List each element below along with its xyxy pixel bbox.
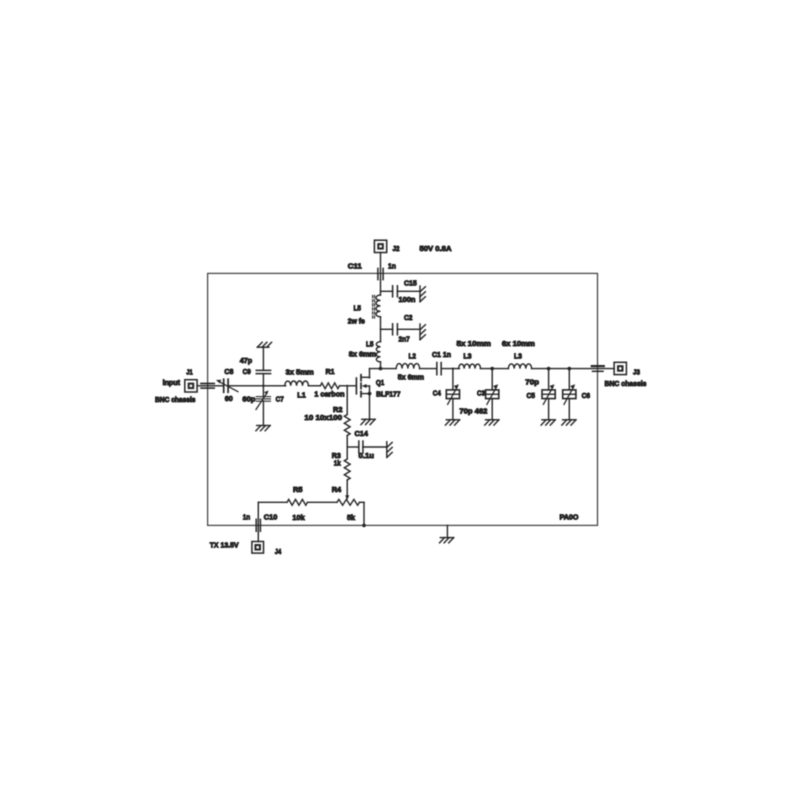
trimmer C4 branch wire xyxy=(452,369,454,390)
svg-text:C1 1n: C1 1n xyxy=(432,350,451,359)
trimmer C6 branch wire xyxy=(568,369,570,390)
wire C8 to node A xyxy=(228,385,286,387)
svg-text:BLF177: BLF177 xyxy=(376,389,400,398)
trimmer capacitor C3 xyxy=(486,390,499,399)
capacitor C14 wire xyxy=(347,446,359,448)
capacitor C15 branch wire xyxy=(381,290,393,292)
trimmer C5 branch wire xyxy=(548,369,550,390)
inductor L5 (8x 6mm) xyxy=(376,342,380,362)
ground below C6 xyxy=(563,419,576,421)
svg-text:C5: C5 xyxy=(527,391,536,400)
wire R2 to node B xyxy=(346,436,348,460)
svg-text:J4: J4 xyxy=(275,547,282,556)
inductor L3 (5x 10mm) xyxy=(459,364,481,369)
svg-text:L5: L5 xyxy=(354,303,362,312)
wire C1 to node C xyxy=(441,368,459,370)
trimmer capacitor C6 xyxy=(563,390,576,399)
svg-text:2n7: 2n7 xyxy=(399,335,410,344)
svg-text:5x 6mm: 5x 6mm xyxy=(398,372,425,381)
svg-text:C7: C7 xyxy=(276,394,284,403)
potentiometer R4 xyxy=(337,499,360,505)
ground below C5 xyxy=(542,419,555,421)
wire L5b to drain rail xyxy=(380,362,382,369)
svg-text:47p: 47p xyxy=(240,356,253,365)
svg-text:60: 60 xyxy=(225,394,233,403)
ground above C9 xyxy=(257,346,269,348)
svg-text:8x 6mm: 8x 6mm xyxy=(349,350,377,359)
junction R4/border xyxy=(362,524,366,528)
wire C7 to ground xyxy=(262,401,264,426)
svg-text:C15: C15 xyxy=(404,278,417,287)
capacitor C2 branch wire xyxy=(381,328,393,330)
transistor Q1 drain tap xyxy=(361,376,370,378)
svg-text:10k: 10k xyxy=(292,513,305,522)
ground below C3 xyxy=(486,419,499,421)
svg-text:J1: J1 xyxy=(186,367,193,376)
svg-text:100n: 100n xyxy=(399,295,416,304)
feedthrough capacitor C11 xyxy=(377,268,379,279)
wire C15 to ground xyxy=(397,290,420,292)
enclosure box (screened chassis) xyxy=(208,273,598,525)
trimmer capacitor C5 xyxy=(542,390,555,399)
junction L5/drain rail xyxy=(379,367,383,371)
svg-text:50V 0.8A: 50V 0.8A xyxy=(420,244,453,253)
svg-text:L3: L3 xyxy=(514,351,522,360)
svg-text:1n: 1n xyxy=(388,261,396,270)
ground on bottom border xyxy=(446,525,448,537)
svg-text:J3: J3 xyxy=(633,368,640,377)
wire C9 to ground xyxy=(262,347,264,370)
svg-text:0.1u: 0.1u xyxy=(359,451,375,460)
transistor Q1 channel xyxy=(360,375,362,381)
svg-text:10 10x100: 10 10x100 xyxy=(304,413,342,422)
resistor R5 xyxy=(287,499,307,505)
junction node F xyxy=(568,367,572,371)
svg-text:L1: L1 xyxy=(297,390,306,399)
svg-text:5k: 5k xyxy=(347,513,356,522)
connector J2 xyxy=(374,240,386,252)
svg-text:R5: R5 xyxy=(293,485,303,494)
svg-text:3x 5mm: 3x 5mm xyxy=(286,368,315,377)
feedthrough capacitor at input border xyxy=(201,383,214,385)
junction node C xyxy=(452,368,454,370)
svg-text:5x 10mm: 5x 10mm xyxy=(457,339,492,348)
wire C11 to L5 xyxy=(380,280,382,295)
wire J1 to C8 xyxy=(197,385,224,387)
wire C2 to ground xyxy=(397,328,420,330)
inductor L1 xyxy=(285,381,309,386)
svg-text:Q1: Q1 xyxy=(376,378,384,387)
feedthrough capacitor at output border xyxy=(592,365,604,367)
svg-text:J2: J2 xyxy=(393,244,400,253)
feedthrough capacitor C10 xyxy=(255,519,257,531)
svg-text:L5: L5 xyxy=(366,339,374,348)
ground below C4 xyxy=(446,419,459,421)
transistor Q1 body arrow xyxy=(365,385,370,387)
svg-text:1 carbon: 1 carbon xyxy=(314,390,345,399)
svg-text:TX 13.5V: TX 13.5V xyxy=(210,541,239,550)
wire C5 to ground xyxy=(548,399,550,420)
capacitor C1 xyxy=(436,363,438,375)
svg-text:input: input xyxy=(163,378,181,387)
svg-text:R1: R1 xyxy=(326,367,335,376)
svg-text:BNC chassis: BNC chassis xyxy=(155,395,196,404)
svg-text:1k: 1k xyxy=(334,458,342,467)
wire L3b to J3 xyxy=(532,368,615,370)
junction source/body xyxy=(368,392,372,396)
transistor Q1 gate bar xyxy=(355,378,357,394)
ferrite core marks xyxy=(372,296,374,319)
wire L5 to L5b xyxy=(380,317,382,342)
resistor R2 wire from gate xyxy=(346,386,348,415)
wire R5 left corner to J4 xyxy=(258,501,287,503)
ground below C7 xyxy=(257,425,270,427)
wire Q1 source to ground xyxy=(369,394,371,420)
drain rail wire xyxy=(370,368,396,370)
svg-text:R4: R4 xyxy=(332,485,342,494)
svg-text:L2: L2 xyxy=(409,351,417,360)
capacitor C9 branch wire xyxy=(262,374,264,386)
wire C14 to ground xyxy=(363,446,387,448)
svg-text:BNC chassis: BNC chassis xyxy=(605,379,647,388)
resistor R1 xyxy=(320,383,339,389)
trimmer capacitor C7 branch wire xyxy=(262,386,264,397)
svg-text:60p: 60p xyxy=(242,395,255,404)
capacitor C2 xyxy=(392,324,394,335)
svg-text:C10: C10 xyxy=(264,512,278,521)
svg-text:PA0O: PA0O xyxy=(560,513,579,522)
inductor L3 (6x 10mm) xyxy=(508,364,531,369)
wire C3 to ground xyxy=(491,399,493,420)
wire J2 to C11 xyxy=(380,253,382,280)
junction node E xyxy=(547,367,551,371)
connector J1 xyxy=(185,380,197,392)
transistor Q1 source tap xyxy=(361,393,371,395)
resistor R3 xyxy=(344,459,350,480)
ground right of C14 xyxy=(386,442,388,458)
svg-text:70p 462: 70p 462 xyxy=(459,406,487,415)
svg-text:70p: 70p xyxy=(525,377,539,386)
junction gate/R2 node xyxy=(346,385,348,387)
inductor L5 (2w fe) xyxy=(376,295,381,317)
junction node D xyxy=(490,367,494,371)
wire C6 to ground xyxy=(568,399,570,420)
capacitor C9 xyxy=(256,369,270,371)
svg-text:C11: C11 xyxy=(348,261,362,270)
resistor R2 xyxy=(344,415,350,436)
connector J3 xyxy=(614,362,626,374)
svg-text:C2: C2 xyxy=(404,313,413,322)
wire R5 to R4 xyxy=(308,501,338,503)
svg-text:C9: C9 xyxy=(243,367,251,376)
svg-text:6x 10mm: 6x 10mm xyxy=(502,339,535,348)
ground right of C2 xyxy=(419,324,421,340)
wire L1 to R1 xyxy=(308,385,320,387)
inductor L2 xyxy=(396,364,419,369)
svg-text:C4: C4 xyxy=(433,389,442,398)
wire R1 to gate of Q1 xyxy=(340,385,357,387)
ground at Q1 source xyxy=(362,418,375,420)
wire L3a to L3b xyxy=(481,368,509,370)
trimmer C3 branch wire xyxy=(491,369,493,390)
connector J4 xyxy=(252,542,264,554)
svg-text:C8: C8 xyxy=(224,367,233,376)
trimmer capacitor C4 xyxy=(446,390,459,399)
capacitor C14 xyxy=(358,441,360,453)
trimmer capacitor C8 xyxy=(223,379,225,392)
svg-text:L3: L3 xyxy=(463,351,471,360)
svg-text:C6: C6 xyxy=(582,391,591,400)
trimmer capacitor C7 xyxy=(256,396,270,398)
svg-text:C3: C3 xyxy=(477,389,485,398)
junction C9/C7 node xyxy=(262,385,264,387)
ground right of C15 xyxy=(419,286,421,302)
wire L2 to C1 xyxy=(420,368,437,370)
wire R4 to bottom border xyxy=(360,501,365,503)
wire R3 to R4 wiper xyxy=(346,480,348,496)
svg-text:2w fe: 2w fe xyxy=(348,317,365,326)
svg-text:1n: 1n xyxy=(243,512,251,521)
wire C4 to ground xyxy=(452,399,454,420)
svg-text:C14: C14 xyxy=(355,429,369,438)
capacitor C15 xyxy=(392,286,394,297)
